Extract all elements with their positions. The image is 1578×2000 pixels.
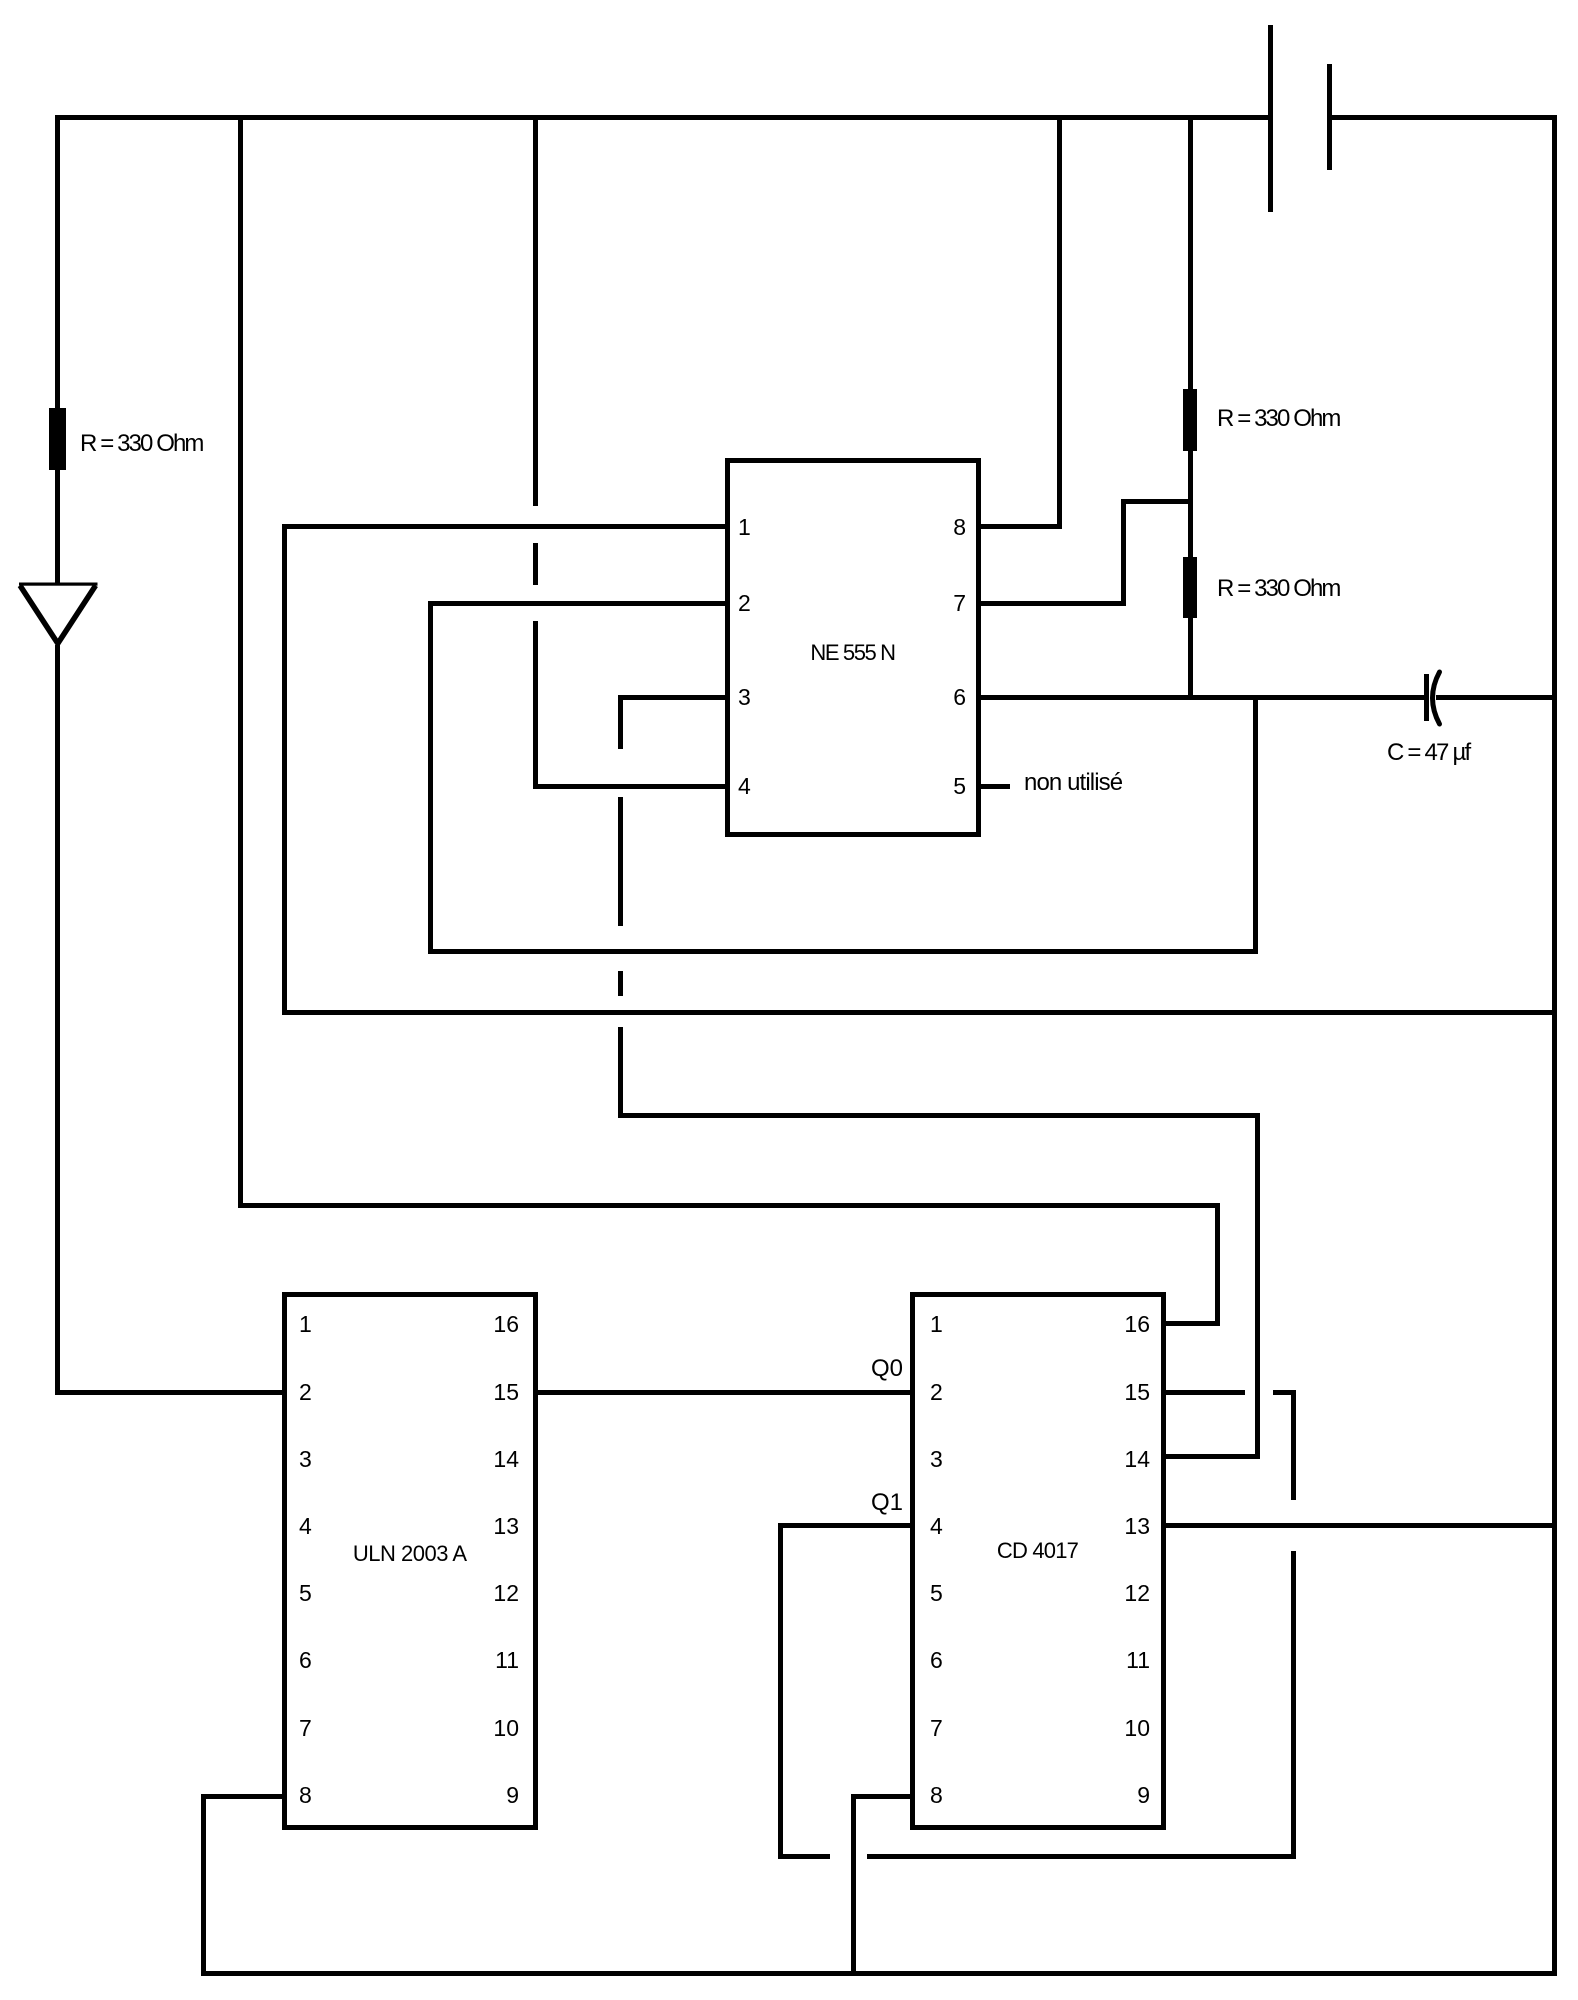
wire reset riser x=1292 segment 1 [1291,1390,1296,1500]
pin 11 of U3 [1107,1648,1150,1672]
pin 6 of U1 [930,685,966,709]
wire pin 3 riser segment 4 (hops ground wire) [618,1027,623,1118]
pin 9 of U2 [476,1783,519,1807]
capacitor C1 curved plate [1417,664,1457,734]
pin 14 of U2 [476,1447,519,1471]
pin 6 of U2 [299,1648,312,1672]
wire NE555 pin 6 line to capacitor [981,695,1424,700]
label R2 value [1217,408,1340,430]
wire pin2-pin6 tie horizontal [428,949,1258,954]
wire NE555 pin 7 stub [981,601,1126,606]
pin 8 of U3 [930,1783,943,1807]
pin 2 of U1 [738,591,751,615]
label U3 name [910,1540,1166,1562]
wire ULN2003 pin 15 to CD4017 pin 2 (Q0) [538,1390,910,1395]
wire Vcc drop at x=1059 [1057,115,1062,529]
label U2 name [282,1543,539,1565]
wire pin 2 riser at x=430 [428,601,433,954]
wire tie riser at x=1255 [1253,697,1258,954]
label C1 value [1387,742,1469,764]
wire ULN2003 pin 8 stub [201,1794,282,1799]
wire NE555 pin 4 stub [533,784,725,789]
capacitor C1 flat plate [1424,674,1429,721]
pin 2 of U3 [930,1380,943,1404]
pin 13 of U3 [1107,1514,1150,1538]
wire pin 7 riser [1121,499,1126,606]
wire CD4017 pin 13 to right rail [1166,1523,1553,1528]
wire pin 3 riser segment 3 (hops tie wire) [618,971,623,996]
IC U3 CD 4017 [910,1292,1166,1830]
IC U1 NE 555 N [725,458,981,837]
wire Vcc drop at x=240 [238,115,243,1209]
wire left rail to ULN2003 pin 2 [55,1390,284,1395]
wire left rail between resistor and LED [55,470,60,586]
pin 10 of U2 [476,1716,519,1740]
pin 8 of U2 [299,1783,312,1807]
pin 9 of U3 [1107,1783,1150,1807]
wire bottom rail (ground) [201,1971,1558,1976]
resistor R2 R = 330 Ohm (upper right) [1183,389,1197,451]
resistor R3 R = 330 Ohm (lower right) [1183,557,1197,618]
wire left rail above resistor [55,115,60,409]
pin 1 of U1 [738,515,751,539]
wire pin 15 corner piece [1273,1390,1296,1395]
wire reset riser x=1292 segment 2 (hops pin 13 wire) [1291,1551,1296,1859]
label non utilise [1024,772,1122,794]
label R3 value [1217,578,1340,600]
pin 5 of U1 [930,774,966,798]
wire CD4017 pin 14 stub [1166,1454,1260,1459]
pin 4 of U1 [738,774,751,798]
wire NE555 pin 8 stub [981,524,1062,529]
pin 3 of U2 [299,1447,312,1471]
pin 3 of U1 [738,685,751,709]
wire resistor chain drop at x=1190 [1188,115,1193,700]
wire CD4017 pin 8 stub [851,1794,910,1799]
pin 1 of U2 [299,1312,312,1336]
label U1 name [725,642,981,664]
wire pin 3 riser segment 1 [618,695,623,750]
pin 15 of U3 [1107,1380,1150,1404]
wire Vcc run to CD4017 pin 16 [238,1203,1220,1208]
battery B1 long plate (+) [1268,25,1273,212]
wire Q1 riser at x=780 [778,1523,783,1859]
wire NE555 pin 2 stub [428,601,725,606]
wire CD4017 ground riser at x=853 [851,1794,856,1976]
pin 1 of U3 [930,1312,943,1336]
wire pin 3 riser segment 2 (hops pin 4 wire) [618,797,623,926]
wire CD4017 pin 4 stub (Q1) [778,1523,910,1528]
pin 2 of U2 [299,1380,312,1404]
pin 12 of U2 [476,1581,519,1605]
wire NE555 pin 1 stub [284,524,725,529]
wire right rail (ground bus) [1552,115,1557,1976]
wire Q1 loop bottom segment 1 [778,1854,831,1859]
wire pin 3 output run [618,1113,1260,1118]
wire NE555 pin 3 stub [618,695,725,700]
wire Vcc drop at x=535 segment 3 (hops pin 2 wire) [533,621,538,789]
pin 4 of U2 [299,1514,312,1538]
IC U2 ULN 2003 A [282,1292,539,1830]
pin 7 of U3 [930,1716,943,1740]
pin 11 of U2 [476,1648,519,1672]
wire Q1 loop bottom segment 2 (hops ground riser) [867,1854,1296,1859]
pin 14 of U3 [1107,1447,1150,1471]
wire pin 1 riser at x=284 [282,524,287,1015]
node Q1 label [843,1492,903,1514]
wire left rail below LED [55,645,60,1395]
pin 8 of U1 [930,515,966,539]
wire top rail (Vcc bus), left of battery [55,115,1268,120]
node Q0 label [843,1358,903,1380]
pin 4 of U3 [930,1514,943,1538]
resistor R1 R = 330 Ohm (left) [49,408,66,470]
pin 16 of U2 [476,1312,519,1336]
pin 6 of U3 [930,1648,943,1672]
pin 5 of U3 [930,1581,943,1605]
wire NE555 pin 5 stub [981,784,1010,789]
wire clock riser to CD4017 pin 14 [1255,1113,1260,1459]
wire Vcc drop at x=535 segment 2 (hops pin 1 wire) [533,543,538,585]
pin 7 of U1 [930,591,966,615]
battery B1 short plate (-) [1327,64,1332,170]
wire top rail, right of battery to right rail [1332,115,1558,120]
pin 13 of U2 [476,1514,519,1538]
label R1 value [80,433,203,455]
pin 7 of U2 [299,1716,312,1740]
wire pin 7 to resistor junction [1121,499,1191,504]
pin 15 of U2 [476,1380,519,1404]
wire CD4017 pin 15 stub [1166,1390,1245,1395]
pin 5 of U2 [299,1581,312,1605]
pin 16 of U3 [1107,1312,1150,1336]
pin 10 of U3 [1107,1716,1150,1740]
wire Vcc drop at x=535 segment 1 [533,115,538,507]
pin 12 of U3 [1107,1581,1150,1605]
LED D1 (triangle) [17,578,99,650]
wire ULN2003 ground riser at x=203 [201,1794,206,1976]
pin 3 of U3 [930,1447,943,1471]
wire CD4017 pin 16 stub [1166,1321,1220,1326]
wire Vcc drop to pin 16 [1215,1203,1220,1326]
wire capacitor to right rail [1436,695,1552,700]
wire pin 1 ground run to right rail [282,1010,1553,1015]
